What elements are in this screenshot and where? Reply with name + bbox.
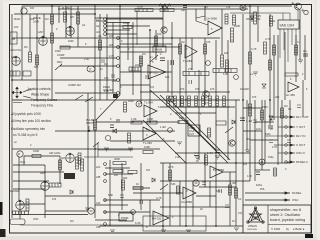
wire <box>120 71 172 73</box>
resistor 100K h <box>32 155 41 158</box>
resistor 100K v <box>124 102 127 112</box>
wire <box>196 195 216 197</box>
wire <box>149 200 151 226</box>
cap <box>256 172 260 175</box>
wire <box>269 14 271 125</box>
resistor 47K h <box>160 9 174 12</box>
wire <box>45 195 95 197</box>
resistor 1M box <box>10 32 17 44</box>
resistor 27K h <box>183 72 209 76</box>
PWM comparator board outline <box>143 216 206 231</box>
svg-text:-15: -15 <box>204 6 208 9</box>
svg-text:2.2K: 2.2K <box>84 58 89 61</box>
svg-text:2.2: 2.2 <box>250 73 254 76</box>
switch diagonal <box>93 142 99 147</box>
svg-text:33K: 33K <box>112 80 117 83</box>
resistor 1.4M v <box>249 104 252 116</box>
svg-text:63K: 63K <box>216 190 221 193</box>
IC 7660 box <box>188 125 200 136</box>
wire <box>20 224 143 226</box>
resistors horizontal <box>32 9 298 188</box>
dark component blob 3 <box>13 211 29 215</box>
svg-text:100K: 100K <box>55 50 61 53</box>
svg-text:Y OUT: Y OUT <box>296 125 305 129</box>
svg-text:5.6K: 5.6K <box>108 194 113 197</box>
wire <box>96 121 180 123</box>
resistor v <box>235 188 238 198</box>
wire <box>160 180 250 182</box>
box 470R <box>216 121 226 125</box>
wire <box>223 171 236 173</box>
left notes text <box>11 87 57 137</box>
wire <box>105 167 130 169</box>
wire <box>106 22 130 24</box>
diode 1N4148 <box>250 13 261 22</box>
resistor v 2.2M <box>233 15 236 25</box>
wire <box>195 9 197 21</box>
svg-text:TL-084: TL-084 <box>144 101 153 105</box>
svg-text:100K: 100K <box>68 40 74 43</box>
svg-text:4.7K: 4.7K <box>109 55 114 58</box>
svg-text:50K: 50K <box>34 66 39 69</box>
resistor v <box>270 16 273 26</box>
diode <box>113 129 117 133</box>
svg-text:10K: 10K <box>109 35 114 38</box>
wire <box>106 14 108 100</box>
resistor v 1M <box>208 128 211 137</box>
svg-text:0.1: 0.1 <box>288 108 292 111</box>
svg-text:1.4M: 1.4M <box>230 182 236 185</box>
svg-text:board, joystick wiring: board, joystick wiring <box>270 218 305 222</box>
svg-text:Wave Shape: Wave Shape <box>31 93 49 97</box>
wire <box>162 6 164 47</box>
wire <box>60 57 117 59</box>
svg-text:X OUT: X OUT <box>296 143 305 147</box>
wire <box>12 37 220 39</box>
svg-text:2.2K: 2.2K <box>175 156 180 159</box>
svg-text:47p: 47p <box>150 86 155 89</box>
caps bottom-center <box>202 182 206 185</box>
wire <box>110 140 175 142</box>
wire <box>185 9 187 226</box>
svg-text:tr: tr <box>30 144 32 147</box>
resistor row <box>140 92 235 107</box>
dark component blob 2 <box>113 94 118 98</box>
resistors vertical <box>29 12 272 194</box>
svg-text:27K: 27K <box>188 67 193 71</box>
svg-text:1K: 1K <box>232 220 235 223</box>
resistor v <box>59 160 62 170</box>
resistor v <box>229 185 232 195</box>
svg-text:CAL: CAL <box>11 56 16 59</box>
wire <box>12 99 240 101</box>
capacitor 10p <box>181 5 187 12</box>
svg-text:2.2K: 2.2K <box>104 90 109 93</box>
svg-text:22K: 22K <box>109 44 114 47</box>
connector circle minus <box>193 180 199 186</box>
svg-text:120: 120 <box>243 163 248 166</box>
svg-text:MAIN: MAIN <box>155 48 163 52</box>
wire <box>11 14 13 218</box>
wire <box>60 46 180 48</box>
svg-text:10K: 10K <box>14 26 19 29</box>
wire <box>175 112 216 114</box>
resistor h <box>213 69 237 73</box>
wire <box>227 40 229 160</box>
resistor AM gain v <box>76 157 79 169</box>
svg-text:47K: 47K <box>195 88 200 91</box>
svg-text:CA-3080: CA-3080 <box>206 17 217 21</box>
connector circle top-left <box>21 8 27 14</box>
wire <box>13 214 88 216</box>
opamp U7 CA-3080 <box>181 187 196 204</box>
wire <box>106 33 137 35</box>
pulse width label <box>86 119 95 125</box>
wire OSC <box>245 199 290 201</box>
svg-text:47K: 47K <box>210 88 215 91</box>
svg-text:FRQ: FRQ <box>57 61 62 64</box>
ground symbols <box>104 148 250 233</box>
resistor v <box>204 44 207 54</box>
resistor v <box>155 36 158 46</box>
svg-text:63K: 63K <box>171 183 176 186</box>
transistor Q2 <box>304 10 308 14</box>
svg-text:10K: 10K <box>165 76 170 79</box>
resistor zigzag 4.7K <box>159 4 171 13</box>
resistor v <box>51 33 54 43</box>
svg-text:0.1: 0.1 <box>297 41 301 44</box>
opamp U8 LM-311 <box>152 211 169 225</box>
wire <box>45 210 88 212</box>
pot A/M lower <box>41 181 50 190</box>
svg-text:100K: 100K <box>128 100 134 103</box>
svg-text:J2A: J2A <box>96 166 101 169</box>
svg-text:LF-353: LF-353 <box>149 71 158 75</box>
wire <box>250 139 278 141</box>
node circle H <box>259 159 265 165</box>
svg-text:1M: 1M <box>70 220 73 223</box>
IC PWM comparator <box>119 213 133 221</box>
svg-text:1.6K: 1.6K <box>131 117 137 121</box>
resistor v <box>36 55 39 65</box>
svg-text:1M: 1M <box>45 18 48 21</box>
title bottom row <box>271 227 305 231</box>
wire <box>175 152 250 154</box>
svg-text:47K: 47K <box>180 88 185 91</box>
wire <box>104 211 150 213</box>
node circle E <box>240 5 246 11</box>
wire <box>261 100 263 170</box>
wire rail 2 <box>58 8 248 10</box>
svg-text:47p: 47p <box>238 212 243 215</box>
svg-text:4.7K: 4.7K <box>162 10 167 13</box>
svg-text:1M: 1M <box>142 53 145 56</box>
resistor 100K h <box>123 26 132 29</box>
svg-text:1M: 1M <box>246 138 249 141</box>
wire <box>12 148 160 150</box>
svg-text:LM-311: LM-311 <box>152 217 162 221</box>
svg-text:1.4M: 1.4M <box>207 152 213 155</box>
svg-text:Joystick controls:: Joystick controls: <box>27 87 51 91</box>
resistor v <box>274 168 277 176</box>
resistor v <box>94 120 97 130</box>
resistor v 27K <box>225 14 228 24</box>
svg-text:4.7K: 4.7K <box>265 37 271 41</box>
svg-text:E: E <box>90 67 92 71</box>
title text <box>270 208 305 222</box>
resistor v <box>99 40 102 50</box>
svg-text:22p: 22p <box>135 64 140 67</box>
wire <box>255 169 270 171</box>
resistor h <box>133 187 143 190</box>
svg-text:1N4148: 1N4148 <box>240 88 249 91</box>
wire <box>106 18 163 20</box>
resistor v <box>122 180 125 190</box>
resistor v <box>254 12 257 24</box>
svg-text:CAL/VOL: CAL/VOL <box>10 48 22 52</box>
wire <box>12 79 117 81</box>
svg-text:SAD 1024: SAD 1024 <box>280 24 295 28</box>
extra components pass 2 <box>10 27 303 233</box>
resistor v <box>140 56 143 66</box>
wire <box>230 12 290 14</box>
opamp U3 <box>144 101 157 118</box>
svg-text:WIDTH: WIDTH <box>86 122 94 125</box>
resistor 100K v <box>231 28 234 42</box>
wire <box>36 14 38 100</box>
wire <box>199 186 236 188</box>
left notes block: joystick sketch <box>12 87 31 103</box>
node circle small <box>206 61 211 66</box>
resistor v <box>205 155 208 165</box>
svg-text:VCA: VCA <box>20 161 25 164</box>
wire <box>95 219 127 221</box>
svg-text:Frequency Coarse: Frequency Coarse <box>31 98 57 102</box>
svg-text:M 47K: M 47K <box>62 6 70 10</box>
svg-text:47K: 47K <box>162 5 167 9</box>
svg-text:WV: WV <box>70 16 74 19</box>
wire <box>198 70 200 160</box>
wire <box>243 107 262 109</box>
resistor 10K h <box>178 121 188 124</box>
diodes extra <box>232 120 235 124</box>
extra tiny labels pass2 <box>20 6 301 215</box>
transistor circles extra <box>203 91 209 97</box>
scan artifact bottom-left corner <box>0 229 6 237</box>
wire <box>95 17 163 19</box>
IC MAIN box <box>153 46 166 52</box>
wire <box>160 162 290 164</box>
svg-text:10K: 10K <box>30 18 35 21</box>
trim boxes <box>10 71 20 76</box>
svg-text:47K: 47K <box>252 96 257 99</box>
wire <box>204 6 206 21</box>
svg-text:10K: 10K <box>179 116 184 120</box>
resistor h <box>60 46 70 49</box>
svg-text:A/M: A/M <box>38 30 44 34</box>
wire <box>65 6 67 38</box>
switch diagonals <box>55 55 233 190</box>
ground extra <box>177 142 182 145</box>
svg-text:All freq fine pots 100 section: All freq fine pots 100 section <box>11 119 51 123</box>
node circle D <box>136 101 142 107</box>
svg-text:22K: 22K <box>275 96 280 99</box>
wire <box>55 130 175 132</box>
resistor hatched h <box>49 183 61 187</box>
resistor v <box>77 12 80 24</box>
scan artifact bottom-right corner <box>305 234 313 238</box>
wire <box>55 92 117 94</box>
pot WAVE <box>66 26 75 35</box>
opamp U4 <box>143 127 156 145</box>
wire <box>104 199 160 201</box>
svg-text:© 1993: © 1993 <box>271 227 281 231</box>
wire <box>133 187 150 189</box>
pot PWM <box>66 153 75 162</box>
wire <box>95 204 128 206</box>
svg-text:PANEL: PANEL <box>292 191 302 195</box>
svg-text:4.7K: 4.7K <box>272 146 277 149</box>
resistor v <box>221 55 224 67</box>
connector circle P- <box>88 208 94 214</box>
svg-text:100K: 100K <box>137 5 143 9</box>
svg-text:1K: 1K <box>200 208 203 211</box>
svg-text:MAIN: MAIN <box>14 18 20 21</box>
capacitors <box>116 54 308 156</box>
svg-text:4.7K: 4.7K <box>168 165 174 169</box>
wire <box>242 14 244 205</box>
svg-text:OSC: OSC <box>292 198 299 202</box>
wire <box>277 35 279 165</box>
svg-text:100K: 100K <box>123 21 129 25</box>
svg-text:DESIGNS: DESIGNS <box>247 229 257 231</box>
connector circle P+ <box>17 151 23 157</box>
svg-text:DLY OUT: DLY OUT <box>296 115 309 119</box>
svg-text:FANL: FANL <box>256 184 263 187</box>
svg-text:4.7K: 4.7K <box>251 47 257 51</box>
wire <box>94 5 96 218</box>
resistor v <box>64 12 67 22</box>
opamp U6 CA-3080 <box>210 166 224 178</box>
node circle A <box>168 128 173 133</box>
svg-text:OSC F: OSC F <box>296 151 305 155</box>
wire <box>106 29 130 31</box>
IC SAD-1024 <box>278 20 299 32</box>
wire <box>133 192 183 194</box>
resistor v <box>264 42 267 54</box>
resistor v <box>179 44 182 54</box>
svg-text:4x7: 4x7 <box>180 101 185 105</box>
arrow feed wires <box>265 117 285 153</box>
title block <box>243 205 311 233</box>
svg-text:All joystick pots 100K: All joystick pots 100K <box>11 112 42 116</box>
resistor v <box>226 60 229 72</box>
dark component blob 1 <box>64 173 75 179</box>
wire buses 2 <box>29 14 31 52</box>
transistor Q1 <box>295 3 302 10</box>
wire <box>243 130 262 132</box>
svg-text:1M: 1M <box>104 63 107 66</box>
svg-text:PNL: PNL <box>260 188 265 191</box>
wire <box>13 180 49 182</box>
wire <box>21 6 23 80</box>
opamp U5 LF-356 <box>286 82 299 97</box>
wire <box>235 100 237 226</box>
node circle F <box>168 96 174 102</box>
opamp U9 LF-353 <box>148 65 166 79</box>
cap <box>110 125 114 128</box>
svg-text:J3B: J3B <box>96 226 101 229</box>
svg-text:0.1: 0.1 <box>238 198 242 201</box>
svg-text:4.7K: 4.7K <box>247 175 252 178</box>
svg-text:✳: ✳ <box>291 1 295 6</box>
svg-text:100K: 100K <box>144 145 150 149</box>
wire <box>162 163 164 230</box>
wire top rail <box>22 5 292 7</box>
wire <box>149 30 151 122</box>
wire PANEL <box>245 192 290 194</box>
svg-text:150K: 150K <box>262 106 268 109</box>
svg-text:100p: 100p <box>265 133 271 136</box>
resistor v 100K <box>128 133 131 143</box>
right edge connector labels <box>292 115 309 202</box>
resistor v <box>295 45 298 55</box>
wire <box>255 121 274 123</box>
wire <box>106 25 150 27</box>
svg-text:sheet 2: Oscillator: sheet 2: Oscillator <box>270 213 301 217</box>
resistor 300K h <box>113 162 126 165</box>
node oval E2 <box>87 66 95 72</box>
node circle small <box>131 210 136 215</box>
svg-text:1.4M: 1.4M <box>246 119 253 123</box>
svg-text:ATMAN: ATMAN <box>248 224 257 228</box>
diode vertical <box>269 116 273 120</box>
svg-text:CA-3080: CA-3080 <box>181 200 192 204</box>
svg-text:AM: AM <box>61 157 65 160</box>
hatched box bottom-left <box>10 219 25 225</box>
opamp U1 CA3080 <box>206 17 222 36</box>
wire <box>19 203 45 205</box>
svg-text:1M: 1M <box>11 37 16 41</box>
svg-text:120: 120 <box>256 127 261 131</box>
wire <box>13 156 45 165</box>
svg-text:15V: 15V <box>246 18 251 21</box>
svg-text:1K: 1K <box>136 183 139 186</box>
svg-text:1M: 1M <box>24 46 27 49</box>
pot A/M (wave) <box>39 36 48 45</box>
wire <box>175 106 230 108</box>
svg-text:COMP: COMP <box>57 54 65 57</box>
logo triangle <box>247 207 264 223</box>
caps extra <box>101 60 105 62</box>
wire <box>13 171 64 173</box>
svg-text:10K: 10K <box>157 33 162 36</box>
svg-text:DLY IN: DLY IN <box>296 134 305 138</box>
wire <box>13 188 45 190</box>
node circle small <box>234 75 239 80</box>
svg-text:J2B: J2B <box>96 176 101 179</box>
edge shading <box>0 0 3 240</box>
open pin circles right of mid-left block <box>117 37 120 95</box>
more scattered labels <box>14 53 287 223</box>
resistor v <box>281 108 284 118</box>
diagonal wires <box>150 90 200 135</box>
resistor 100K h <box>143 151 153 154</box>
wire <box>160 206 230 208</box>
node circle <box>105 135 110 140</box>
svg-text:TL-084: TL-084 <box>143 141 152 145</box>
resistor 63K v <box>177 186 180 194</box>
